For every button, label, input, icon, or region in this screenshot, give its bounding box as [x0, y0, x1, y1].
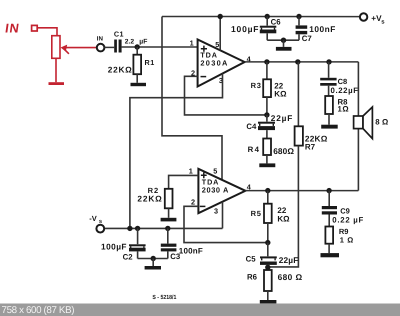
svg-text:µF: µF	[139, 39, 147, 46]
svg-text:680Ω: 680Ω	[273, 146, 294, 156]
svg-text:5: 5	[213, 167, 217, 176]
svg-text:IN: IN	[97, 36, 104, 43]
status bar	[0, 304, 400, 316]
wire pin5 U1	[219, 17, 221, 51]
wire U2 pin2 feedback	[184, 206, 268, 242]
wire U1 pin2 feedback	[185, 76, 267, 115]
wire	[37, 28, 57, 36]
svg-text:22KΩ: 22KΩ	[137, 193, 162, 203]
svg-text:C5: C5	[246, 254, 257, 263]
svg-text:s: s	[99, 219, 102, 225]
node C5/R6/R7	[265, 265, 270, 270]
wire +Vs branch to U2 pin5	[162, 17, 222, 180]
ground C6/C7	[276, 47, 292, 51]
svg-text:3: 3	[214, 207, 218, 216]
svg-text:758 x 600 (87 KB): 758 x 600 (87 KB)	[2, 305, 75, 316]
op-amp U1 TDA2030A	[198, 40, 245, 87]
wire C2/C3 join to ground	[138, 258, 168, 260]
input terminal (red square)	[32, 25, 38, 31]
output bus upper	[245, 61, 359, 63]
node	[218, 14, 223, 19]
svg-text:R5: R5	[251, 209, 262, 218]
svg-text:C6: C6	[271, 17, 282, 26]
capacitor C4 22uF	[266, 115, 268, 122]
output bus lower	[245, 190, 358, 192]
svg-text:R4: R4	[248, 145, 261, 154]
svg-text:R1: R1	[145, 58, 155, 67]
svg-text:8: 8	[375, 118, 380, 127]
ground R8	[321, 125, 338, 129]
svg-text:C9: C9	[340, 207, 350, 216]
potentiometer wiper arrow	[61, 45, 68, 52]
svg-text:22KΩ: 22KΩ	[108, 64, 132, 74]
svg-text:IN: IN	[4, 21, 21, 36]
svg-text:100nF: 100nF	[309, 24, 335, 34]
node	[127, 226, 132, 231]
node R5/C5	[265, 240, 270, 245]
svg-text:KΩ: KΩ	[274, 89, 287, 98]
svg-text:-V: -V	[89, 214, 97, 223]
svg-text:1 Ω: 1 Ω	[340, 235, 354, 244]
node IN terminal	[97, 44, 105, 52]
svg-text:C2: C2	[123, 253, 134, 262]
svg-text:S - 5218/1: S - 5218/1	[152, 294, 177, 301]
-Vs terminal	[96, 225, 104, 233]
resistor R7 22K with wire to C5/R6 node	[297, 62, 299, 126]
svg-text:R7: R7	[305, 143, 316, 152]
node R7 top	[295, 59, 300, 64]
resistor R4 680	[263, 139, 271, 156]
wire wiper to IN node	[64, 47, 97, 49]
+Vs rail	[162, 16, 360, 18]
resistor R6 680	[264, 270, 272, 291]
potentiometer P1 (red)	[52, 36, 60, 59]
capacitor C7 100nF	[296, 14, 301, 19]
node R3 top	[264, 59, 269, 64]
wire pot bottom	[55, 58, 57, 82]
capacitor C9 0.22uF	[328, 191, 330, 206]
resistor R3 22K	[266, 62, 268, 79]
svg-text:22µF: 22µF	[279, 255, 299, 265]
op-amp U2 TDA2030A	[198, 169, 245, 213]
ground R4	[259, 163, 275, 167]
svg-text:680 Ω: 680 Ω	[278, 272, 303, 282]
svg-text:22µF: 22µF	[271, 113, 293, 123]
svg-text:2.2: 2.2	[125, 39, 135, 46]
wire U1 pin3 to -Vs rail	[130, 74, 223, 229]
ground R6	[260, 300, 277, 303]
resistor R2 22K	[165, 189, 173, 209]
svg-text:C1: C1	[114, 30, 124, 39]
svg-text:1: 1	[189, 166, 193, 175]
svg-text:2030A: 2030A	[200, 59, 228, 68]
svg-text:1: 1	[190, 39, 194, 48]
svg-text:0.22µF: 0.22µF	[331, 86, 359, 95]
svg-text:C8: C8	[338, 77, 348, 86]
svg-text:5: 5	[215, 40, 219, 49]
svg-text:100nF: 100nF	[179, 247, 203, 256]
resistor R1 22K	[136, 47, 138, 55]
capacitor C8 0.22uF	[328, 62, 330, 78]
capacitor C5 22uF	[267, 243, 269, 257]
node R5 top	[265, 188, 270, 193]
svg-text:1Ω: 1Ω	[338, 105, 350, 114]
ground R2	[161, 218, 177, 222]
wire C6/C7 to ground	[267, 39, 299, 41]
resistor R5 22K	[267, 191, 269, 204]
svg-text:0.22 µF: 0.22 µF	[332, 215, 363, 224]
wire U2 pin1 to R2	[169, 175, 199, 188]
speaker LS 8ohm	[354, 116, 363, 129]
capacitor C6 100uF	[265, 14, 270, 19]
ground (red)	[49, 82, 65, 85]
wire U2 pin3	[222, 202, 224, 229]
-Vs rail	[104, 227, 222, 229]
svg-text:s: s	[381, 19, 385, 25]
svg-text:2: 2	[191, 197, 195, 206]
svg-text:C4: C4	[246, 122, 257, 131]
+Vs terminal	[360, 13, 367, 20]
ground R1	[131, 83, 147, 86]
svg-text:C7: C7	[302, 34, 312, 43]
ground C2/C3	[145, 266, 161, 270]
svg-text:Ω: Ω	[382, 118, 388, 127]
resistor R8 1ohm	[325, 96, 333, 114]
svg-text:KΩ: KΩ	[277, 215, 290, 224]
wire C1 to pin1	[122, 46, 198, 48]
node C8 top	[326, 59, 331, 64]
svg-text:R6: R6	[247, 272, 258, 281]
resistor R9 1ohm	[325, 227, 333, 244]
svg-text:R3: R3	[251, 81, 262, 90]
wire	[104, 46, 114, 48]
svg-text:100µF: 100µF	[231, 24, 259, 34]
capacitor C2 100uF	[135, 226, 140, 231]
svg-text:2030 A: 2030 A	[202, 185, 229, 194]
node junction	[135, 44, 140, 49]
wire speaker branch	[357, 62, 359, 191]
node C9 top	[326, 188, 331, 193]
capacitor C3 100nF	[165, 226, 170, 231]
capacitor C1 2.2uF	[114, 40, 117, 53]
ground R9	[321, 253, 340, 257]
svg-text:100µF: 100µF	[101, 241, 127, 251]
